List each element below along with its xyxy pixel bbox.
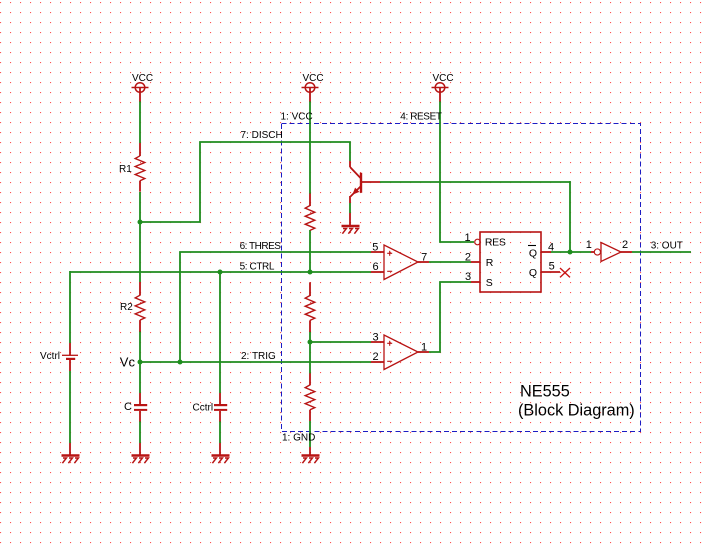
svg-text:1: VCC: 1: VCC bbox=[281, 112, 313, 123]
svg-text:6: THRES: 6: THRES bbox=[240, 241, 282, 252]
svg-text:3: 3 bbox=[465, 271, 471, 283]
svg-text:5: CTRL: 5: CTRL bbox=[240, 261, 275, 272]
svg-text:Cctrl: Cctrl bbox=[193, 403, 214, 414]
svg-text:7: DISCH: 7: DISCH bbox=[241, 130, 283, 141]
svg-text:5: 5 bbox=[549, 261, 555, 273]
svg-text:1: 1 bbox=[421, 341, 427, 353]
svg-text:6: 6 bbox=[373, 261, 379, 273]
svg-text:VCC: VCC bbox=[303, 73, 324, 84]
svg-text:VCC: VCC bbox=[433, 73, 454, 84]
svg-text:1: 1 bbox=[465, 232, 471, 244]
svg-text:1: 1 bbox=[586, 239, 592, 251]
svg-text:7: 7 bbox=[421, 251, 427, 263]
svg-text:4: RESET: 4: RESET bbox=[400, 112, 442, 123]
svg-text:Q: Q bbox=[529, 247, 537, 259]
svg-text:VCC: VCC bbox=[132, 73, 153, 84]
svg-text:C: C bbox=[124, 401, 132, 413]
svg-text:2: TRIG: 2: TRIG bbox=[241, 351, 276, 362]
svg-text:3: OUT: 3: OUT bbox=[651, 241, 683, 252]
svg-text:Vc: Vc bbox=[120, 355, 136, 370]
svg-text:5: 5 bbox=[372, 241, 378, 253]
svg-text:Vctrl: Vctrl bbox=[40, 351, 60, 362]
svg-text:NE555: NE555 bbox=[520, 383, 570, 401]
svg-text:R2: R2 bbox=[120, 302, 133, 313]
svg-text:(Block Diagram): (Block Diagram) bbox=[518, 402, 635, 420]
svg-text:R1: R1 bbox=[119, 164, 132, 175]
svg-text:2: 2 bbox=[465, 251, 471, 263]
svg-text:1: GND: 1: GND bbox=[282, 433, 315, 444]
svg-text:3: 3 bbox=[372, 331, 378, 343]
svg-text:S: S bbox=[486, 277, 493, 289]
svg-text:R: R bbox=[486, 257, 494, 269]
svg-text:RES: RES bbox=[485, 236, 506, 248]
svg-text:Q: Q bbox=[529, 267, 537, 279]
svg-text:4: 4 bbox=[548, 241, 554, 253]
svg-text:2: 2 bbox=[372, 351, 378, 363]
svg-text:2: 2 bbox=[622, 239, 628, 251]
